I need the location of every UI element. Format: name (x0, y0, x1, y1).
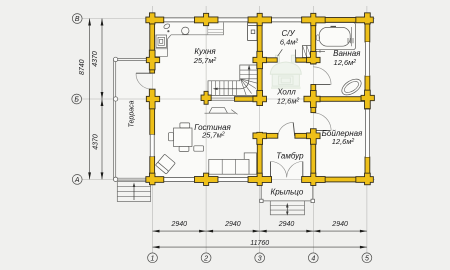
floor interior (152, 19, 368, 180)
bubble row V (72, 14, 82, 24)
svg-text:2940: 2940 (278, 221, 295, 228)
bubble col3 (255, 253, 265, 263)
svg-text:12,6м2: 12,6м2 (277, 97, 300, 106)
terrace bottom edge (114, 177, 150, 179)
horizontal dim 2940 line (153, 230, 367, 232)
cross col4 tambour joint (306, 128, 320, 144)
svg-text:5: 5 (365, 255, 369, 262)
terrace steps outline (117, 182, 150, 202)
WC bottom wall segments (262, 58, 277, 62)
cross col2 row V (194, 13, 218, 26)
col3 wall segments (257, 22, 262, 101)
svg-text:11760: 11760 (250, 240, 269, 247)
entrance double door arcs (271, 162, 287, 178)
dining table (174, 128, 193, 147)
svg-text:4370: 4370 (92, 51, 99, 67)
window top kitchen1 (163, 18, 195, 23)
svg-text:2: 2 (203, 255, 208, 262)
grid axis line col3 (259, 6, 261, 253)
svg-text:25,7м2: 25,7м2 (193, 56, 217, 65)
stair winder treads fan (241, 79, 258, 96)
cross col1 row V corner (145, 12, 164, 24)
svg-text:4: 4 (311, 255, 315, 262)
porch steps up-arrow (286, 205, 288, 214)
door to terrace leaf (136, 72, 152, 74)
svg-text:1: 1 (151, 255, 155, 262)
grid axis line row A (82, 178, 375, 180)
terrace steps treads (117, 186, 150, 188)
svg-text:3: 3 (258, 255, 262, 262)
grid axis line row V (82, 18, 375, 20)
grid axis line col2 (205, 6, 207, 253)
col4 wall segments (311, 22, 316, 64)
cross col3 WC joint (253, 51, 267, 69)
stair lower flight treads (211, 81, 236, 96)
cross col3 tambour joint (253, 132, 267, 145)
cross col1 terrace joint (146, 50, 160, 71)
grid axis line col1 (152, 6, 154, 253)
bubble col1 (148, 253, 158, 263)
terrace post top (113, 57, 117, 61)
cross col4 WC joint (306, 51, 320, 64)
bubble row B (72, 94, 82, 104)
terrace top edge double line (114, 57, 150, 59)
sofa (244, 153, 256, 174)
svg-text:2940: 2940 (331, 221, 348, 228)
svg-text:Терраса: Терраса (128, 100, 135, 127)
chair bottom2 (194, 146, 204, 151)
door to terrace arc (136, 73, 152, 89)
boiler room door leaf (313, 130, 330, 132)
stair wall segment (235, 97, 258, 102)
bathroom door arc (313, 67, 331, 85)
kitchen small oval fixture (163, 23, 170, 30)
WC door leaf (294, 50, 296, 58)
svg-text:В: В (75, 16, 80, 23)
chair top (180, 123, 190, 128)
svg-text:12,6м2: 12,6м2 (334, 58, 357, 67)
stair railing thin double line (211, 97, 235, 99)
cross col3 row V (248, 13, 272, 26)
tv cabinet trapezoid below stairs (205, 112, 236, 114)
boiler room door arc (313, 113, 331, 131)
cross col4 row A (301, 173, 325, 186)
svg-text:8740: 8740 (79, 59, 86, 75)
chair left (169, 133, 174, 141)
bath faucet line (315, 50, 325, 52)
svg-text:2940: 2940 (171, 221, 188, 228)
cross col2 row A (194, 173, 218, 186)
arrows on 4370 (101, 19, 104, 26)
arrows 2940 (153, 230, 160, 233)
bathtub (315, 22, 356, 49)
svg-text:Крыльцо: Крыльцо (271, 188, 304, 197)
svg-text:С/У: С/У (281, 29, 295, 38)
bath bottom wall segment (316, 97, 365, 102)
tambour door leaf (293, 122, 295, 135)
porch floor (261, 180, 313, 201)
porch outline (260, 182, 262, 201)
bubble col5 (362, 253, 372, 263)
grid axis line row B (82, 98, 375, 100)
cross col3 row B (253, 90, 267, 106)
svg-text:Б: Б (74, 97, 79, 104)
cross col5 row A corner (355, 173, 373, 186)
stair direction line (215, 67, 250, 89)
cross col2 row B freestanding (201, 91, 212, 105)
chair bottom1 (179, 146, 189, 151)
stair upper flight treads (240, 70, 257, 79)
left wall segments (150, 18, 155, 74)
bathroom door leaf (313, 84, 330, 86)
svg-text:25,7м2: 25,7м2 (201, 131, 225, 140)
arrows on 8740 (88, 19, 91, 26)
armchair rotated (155, 154, 175, 174)
WC leader line (278, 49, 283, 56)
svg-text:2940: 2940 (224, 221, 241, 228)
svg-text:Тамбур: Тамбур (276, 151, 304, 160)
svg-text:4370: 4370 (93, 134, 100, 150)
window top WC (269, 18, 301, 23)
svg-text:А: А (74, 177, 80, 184)
horizontal dim 11760 line (153, 246, 367, 248)
grid axis line col4 (312, 6, 314, 253)
vertical dim 4370 line (101, 19, 103, 180)
tambour wall segments (262, 133, 278, 138)
cross col5 row B (361, 90, 375, 109)
svg-text:Холл: Холл (276, 88, 296, 97)
terrace floor (114, 58, 153, 179)
vent shaft in WC (303, 46, 312, 58)
bathroom sink oval (339, 76, 364, 98)
bottom wall segments (150, 177, 164, 182)
porch corner posts (260, 199, 263, 202)
window right boiler (365, 109, 370, 157)
towel bars (347, 38, 349, 43)
bubble col2 (201, 253, 211, 263)
grid axis line col5 (366, 6, 368, 253)
terrace steps up-arrow (133, 185, 135, 201)
kitchen stove with oven rings (156, 35, 167, 48)
entrance double door leafs (270, 162, 272, 178)
window right bath (365, 42, 370, 76)
watermark house logo (270, 55, 301, 89)
kitchen round sink (182, 27, 189, 34)
vertical dim 8740 line (89, 19, 91, 180)
cross col5 row V corner (355, 12, 373, 24)
right wall segments (365, 18, 370, 43)
terrace left edge double line (113, 58, 115, 180)
svg-text:12,6м2: 12,6м2 (332, 137, 355, 146)
cross col1 row A corner (145, 173, 164, 186)
window bottom living1 (163, 177, 195, 182)
kitchen dishwasher lines (208, 22, 224, 34)
cross col4 row B (304, 90, 321, 108)
terrace post bottom (113, 177, 117, 181)
cross col1 row B (146, 89, 160, 110)
kitchen counter top edge (171, 22, 223, 34)
cross col3 row A (248, 173, 272, 186)
svg-text:Кухня: Кухня (194, 47, 216, 56)
bubble col4 (308, 253, 318, 263)
porch steps (270, 201, 304, 215)
fridge (248, 23, 257, 41)
stair block outline (208, 65, 257, 95)
window bottom living2 (215, 177, 249, 182)
bubble row A (72, 175, 82, 185)
window top kitchen2 (210, 18, 248, 23)
window left living (150, 135, 155, 157)
kitchen corner counter (155, 35, 171, 57)
terrace post middle (113, 97, 117, 101)
cross col4 row V (301, 13, 325, 26)
tambour door arc (278, 122, 293, 135)
top wall segments (150, 18, 163, 23)
